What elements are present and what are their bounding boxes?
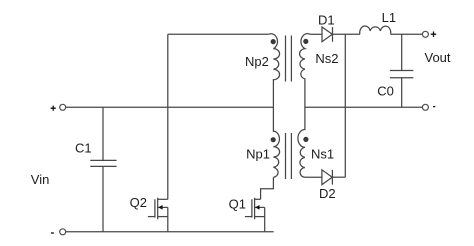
svg-text:L1: L1 xyxy=(382,10,396,25)
svg-text:D1: D1 xyxy=(318,13,335,28)
svg-text:Ns2: Ns2 xyxy=(315,51,338,66)
svg-text:D2: D2 xyxy=(319,186,336,201)
svg-text:Ns1: Ns1 xyxy=(311,146,334,161)
svg-text:Np1: Np1 xyxy=(246,146,270,161)
svg-text:Vout: Vout xyxy=(425,50,451,65)
svg-text:Np2: Np2 xyxy=(245,54,269,69)
svg-text:Q2: Q2 xyxy=(130,195,147,210)
svg-text:C0: C0 xyxy=(377,84,394,99)
svg-text:Vin: Vin xyxy=(31,172,50,187)
svg-text:C1: C1 xyxy=(75,141,92,156)
svg-text:Q1: Q1 xyxy=(229,196,246,211)
